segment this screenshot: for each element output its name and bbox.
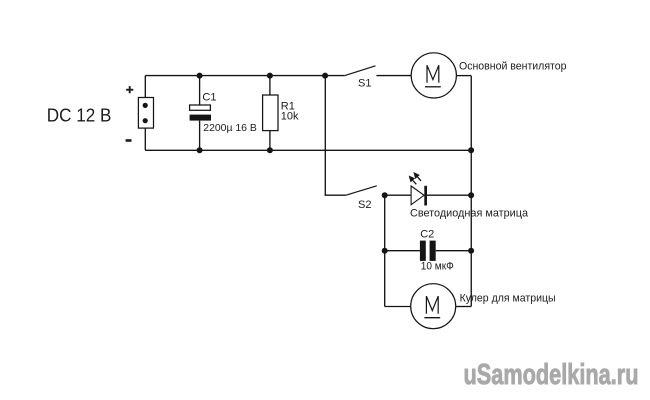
switch S2 lever (open)	[346, 186, 377, 195]
wire: R1 bottom lead	[269, 131, 271, 151]
wire: C2 right lead	[436, 250, 471, 252]
svg-text:Основной вентилятор: Основной вентилятор	[459, 61, 567, 73]
wire: J1 bottom lead	[144, 128, 146, 150]
wire: R1 top lead	[269, 76, 271, 95]
node: C2 left junction	[382, 248, 388, 254]
svg-text:2200µ 16 В: 2200µ 16 В	[203, 123, 257, 134]
wire: left branch vertical from S2 output down to motor M2	[384, 195, 386, 306]
wire: C1 top lead	[199, 76, 201, 105]
svg-text:10k: 10k	[281, 111, 299, 123]
svg-text:C2: C2	[420, 228, 434, 240]
wire: J1 top lead	[144, 76, 146, 98]
motor M2 (matrix cooler)	[411, 284, 456, 329]
wire: LED cathode to right bus	[427, 194, 471, 196]
wire: C2 left lead	[385, 250, 420, 252]
connector J1 (DC 12V input)	[138, 98, 153, 129]
wire: motor M1 to right bus	[456, 75, 471, 77]
node: LED / right bus junction	[468, 192, 474, 198]
wire: motor M2 right lead	[456, 306, 471, 308]
node: top rail / R1 junction	[267, 73, 273, 79]
wire: top rail (+12V) from J1 to S1 left contact	[145, 75, 344, 77]
wire: S2 left stub	[325, 194, 346, 196]
resistor R1	[263, 95, 278, 131]
node: bottom rail / C1 junction	[197, 147, 203, 153]
wire: S1 right contact to motor M1	[376, 75, 411, 77]
svg-text:C1: C1	[202, 92, 216, 104]
switch S1 lever (open)	[345, 66, 376, 76]
svg-text:S1: S1	[358, 78, 371, 90]
motor M1 (main fan)	[411, 53, 456, 98]
wire: motor M2 left lead	[385, 306, 411, 308]
capacitor C2	[420, 241, 436, 261]
LED (Светодиодная матрица)	[409, 172, 427, 206]
svg-text:S2: S2	[358, 199, 371, 211]
label: + polarity	[126, 86, 133, 93]
wire: bottom rail (return)	[145, 149, 471, 151]
node: C2 right junction	[468, 248, 474, 254]
wire: switch branch vertical from top rail down to S2	[324, 76, 326, 196]
node: bottom rail / R1 junction	[267, 147, 273, 153]
capacitor C1 (electrolytic)	[190, 105, 211, 121]
wire: S2 right contact to LED	[385, 194, 411, 196]
svg-text:Светодиодная матрица: Светодиодная матрица	[410, 208, 529, 220]
label: - polarity	[126, 139, 132, 142]
node: bottom rail / right bus junction	[468, 147, 474, 153]
svg-text:Кулер для матрицы: Кулер для матрицы	[460, 293, 556, 305]
node: S2 output junction	[382, 192, 388, 198]
wire: C1 bottom lead	[199, 121, 201, 151]
node: top rail / switch branch junction	[322, 73, 328, 79]
svg-text:DC 12 В: DC 12 В	[47, 106, 112, 126]
svg-text:10 мкФ: 10 мкФ	[421, 261, 454, 273]
wire: right bus vertical	[470, 76, 472, 307]
node: top rail / C1 junction	[197, 73, 203, 79]
svg-text:uSamodelkina.ru: uSamodelkina.ru	[464, 359, 639, 391]
